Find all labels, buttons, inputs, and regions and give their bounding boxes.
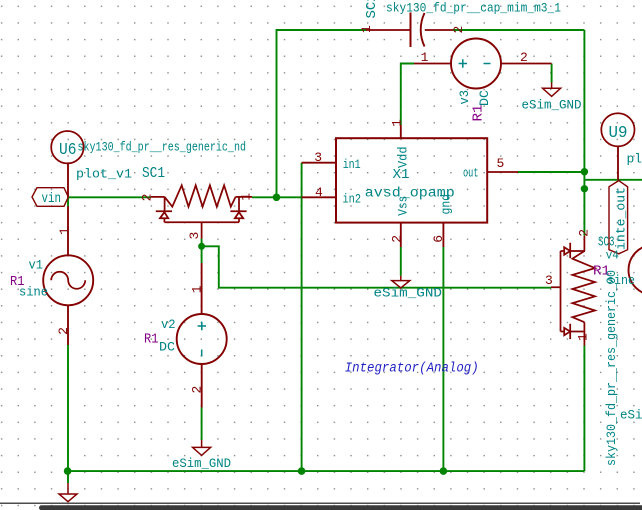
svg-text:Vdd: Vdd xyxy=(396,147,410,169)
svg-text:3: 3 xyxy=(187,232,202,240)
svg-text:v2: v2 xyxy=(161,318,176,332)
ground eSim_GND at v1 bottom xyxy=(59,483,77,502)
wire to inte_out and v4 xyxy=(584,179,642,181)
svg-text:1: 1 xyxy=(576,333,591,341)
voltage source V2 DC xyxy=(177,263,227,408)
svg-text:Integrator(Analog): Integrator(Analog) xyxy=(345,362,479,377)
wire node B to right resistor pin3 xyxy=(202,246,551,287)
svg-text:sky130_fd_pr__res_generic_90: sky130_fd_pr__res_generic_90 xyxy=(605,270,619,466)
svg-text:1: 1 xyxy=(57,227,72,235)
wire v1 pin2 down to rail xyxy=(67,345,69,483)
svg-text:1: 1 xyxy=(390,119,405,127)
wire in1 down to ground rail xyxy=(301,163,303,471)
svg-text:eSim_GND: eSim_GND xyxy=(522,99,582,113)
svg-text:v3: v3 xyxy=(458,90,472,105)
svg-text:plot_v1: plot_v1 xyxy=(76,167,132,182)
svg-text:1: 1 xyxy=(359,25,374,33)
op-amp X1 avsd_opamp xyxy=(302,138,518,247)
svg-text:DC: DC xyxy=(159,340,175,355)
svg-text:inte_out: inte_out xyxy=(614,187,629,250)
svg-text:1: 1 xyxy=(239,193,254,201)
capacitor C1 sky130 cap mim xyxy=(366,13,453,48)
svg-text:2: 2 xyxy=(389,235,404,243)
ground eSim_GND at opamp vss xyxy=(374,276,443,301)
svg-text:eSim_GND: eSim_GND xyxy=(620,409,642,423)
svg-text:2: 2 xyxy=(139,194,154,202)
wire capacitor pin2 to right vertical xyxy=(453,29,584,31)
wire v3 pin1 to opamp Vdd xyxy=(401,64,414,126)
voltage source V4 partial at edge xyxy=(606,245,642,295)
svg-text:in2: in2 xyxy=(343,192,362,206)
wire R1 right to node A xyxy=(252,196,277,198)
wire node A up to capacitor pin1 xyxy=(277,30,367,197)
svg-text:plo: plo xyxy=(627,152,642,167)
voltage source V1 sine xyxy=(43,162,93,345)
junction rail gnd6 xyxy=(440,467,448,475)
svg-text:2: 2 xyxy=(451,26,466,34)
svg-text:avsd_opamp: avsd_opamp xyxy=(365,187,455,202)
svg-text:6: 6 xyxy=(431,235,446,243)
wire opamp vss pin2 to ground xyxy=(400,247,402,276)
wire v1 pin1 stub xyxy=(67,197,69,206)
svg-text:2: 2 xyxy=(56,327,71,335)
svg-text:sine: sine xyxy=(19,284,48,299)
svg-text:v1: v1 xyxy=(29,258,44,272)
svg-text:eSim_GND: eSim_GND xyxy=(172,457,231,471)
svg-text:2: 2 xyxy=(520,50,528,65)
ground eSim_GND at v3 xyxy=(522,83,582,113)
junction rail left xyxy=(64,467,72,475)
svg-text:R1: R1 xyxy=(144,331,159,347)
wire node A to in2 xyxy=(277,196,302,198)
svg-text:R1: R1 xyxy=(471,105,487,122)
junction out node xyxy=(581,168,588,175)
svg-text:sine: sine xyxy=(607,274,635,288)
svg-text:2: 2 xyxy=(190,386,205,394)
junction node A xyxy=(273,194,281,202)
window edge line xyxy=(0,502,640,504)
svg-text:vin: vin xyxy=(42,191,62,207)
svg-text:out: out xyxy=(463,166,479,180)
global label inte_out xyxy=(609,181,629,254)
svg-text:5: 5 xyxy=(497,156,505,171)
svg-text:4: 4 xyxy=(315,185,323,200)
wire ground rail xyxy=(68,470,585,472)
svg-text:SC2: SC2 xyxy=(364,0,380,19)
wire right vertical to out node xyxy=(583,30,585,236)
svg-text:U6: U6 xyxy=(59,140,77,159)
resistor R1 vertical sky130 res generic xyxy=(551,236,595,346)
svg-text:3: 3 xyxy=(545,273,553,288)
ground eSim_GND at v2 xyxy=(172,440,231,471)
svg-text:1: 1 xyxy=(190,285,205,293)
wire vin to R1 left xyxy=(68,196,151,198)
wire v3 pin2 to ground xyxy=(551,64,553,83)
wire R1 pin3 to v2 pin1 xyxy=(201,239,203,263)
plot probe U9 xyxy=(601,113,634,180)
junction rail mid xyxy=(298,467,306,475)
svg-text:U9: U9 xyxy=(609,123,628,142)
svg-text:X1: X1 xyxy=(393,167,410,183)
svg-text:v4: v4 xyxy=(606,249,619,263)
wire v2 pin2 to ground xyxy=(201,408,203,441)
svg-text:eSim_GND: eSim_GND xyxy=(374,286,443,301)
junction inte_out branch xyxy=(581,185,588,192)
resistor R1 horizontal sky130 res generic nd xyxy=(151,185,252,238)
svg-text:SC1: SC1 xyxy=(142,166,165,182)
junction node B xyxy=(198,243,205,250)
global label vin xyxy=(32,188,68,207)
svg-text:in1: in1 xyxy=(343,158,361,172)
scrollbar thumb xyxy=(39,505,642,510)
svg-text:2: 2 xyxy=(577,229,592,237)
wire out pin to junction xyxy=(518,171,584,173)
svg-text:sky130_fd_pr__cap_mim_m3_1: sky130_fd_pr__cap_mim_m3_1 xyxy=(386,2,561,16)
wire right resistor pin1 down to rail xyxy=(583,346,585,472)
svg-text:3: 3 xyxy=(314,150,322,165)
svg-text:1: 1 xyxy=(421,50,429,65)
voltage source V3 DC xyxy=(401,39,552,139)
wire opamp gnd pin6 to rail xyxy=(442,247,444,471)
svg-text:sky130_fd_pr__res_generic_nd: sky130_fd_pr__res_generic_nd xyxy=(78,141,247,155)
svg-text:DC: DC xyxy=(477,90,492,106)
plot probe U6 xyxy=(51,131,83,163)
